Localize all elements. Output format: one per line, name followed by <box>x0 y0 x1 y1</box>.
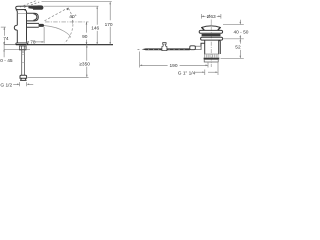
svg-text:52: 52 <box>235 45 241 51</box>
base plate <box>16 43 28 45</box>
handle raised position (dashed, two edges) <box>20 1 37 8</box>
shank thread ticks <box>21 51 25 62</box>
drain centerline (dash-dot vertical) <box>210 20 212 68</box>
nut neck <box>195 46 201 49</box>
rod clamp fitting <box>162 43 167 51</box>
spray regulator knob on rear <box>14 25 17 30</box>
dimension >=350 (hose length) <box>28 76 89 78</box>
svg-text:74: 74 <box>3 36 9 42</box>
dimension G 1 1/4 (waste thread) <box>195 63 218 76</box>
dimension 0-45 (deck thickness) <box>3 42 5 57</box>
svg-text:78: 78 <box>30 40 36 46</box>
spout tube <box>27 13 39 21</box>
waste body <box>205 40 221 54</box>
seal ring (dark band) <box>202 34 221 36</box>
flange (pill) <box>199 30 222 33</box>
dimension 52 (outlet offset) <box>221 57 244 59</box>
svg-text:190: 190 <box>170 63 178 69</box>
outlet bottom (dark band) <box>204 58 220 60</box>
jet upper ray (dashed) <box>45 8 68 21</box>
hose end connector nut <box>20 75 27 80</box>
svg-text:Ø63: Ø63 <box>207 14 216 20</box>
arc arrowhead top <box>66 7 68 10</box>
svg-text:G 1/2: G 1/2 <box>0 82 12 87</box>
column cap seam <box>17 12 26 14</box>
pop-up plug dome <box>201 26 221 28</box>
extension line for 170 (raised handle top) <box>42 1 112 3</box>
dimension 74 (knob height) <box>1 27 6 44</box>
dimension 190 (rod length) <box>140 52 208 68</box>
svg-text:≥350: ≥350 <box>79 62 90 68</box>
dimension 78 (spout projection) <box>26 27 44 49</box>
svg-text:170: 170 <box>105 22 113 28</box>
dimension 40-50 (deck thickness at waste) <box>223 23 244 25</box>
svg-text:40 - 50: 40 - 50 <box>234 30 249 36</box>
aerator nozzle tip (dark) <box>39 24 45 27</box>
svg-text:40°: 40° <box>69 14 76 20</box>
locknut (pill) <box>201 37 223 40</box>
mounting nut below deck <box>19 46 26 50</box>
handle lever bar (closed position) <box>16 6 43 10</box>
outlet end box <box>204 59 218 62</box>
dimension G 1/2 (supply thread) <box>13 82 33 86</box>
svg-text:146: 146 <box>91 26 99 32</box>
dimension 90 (spout height) <box>86 22 88 45</box>
water stream parabola <box>44 26 71 38</box>
deck surface line <box>4 44 16 46</box>
outlet tailpiece with thread <box>204 54 218 58</box>
water jet arc (dashed, 40 deg swing) <box>65 8 73 43</box>
svg-text:90: 90 <box>82 34 88 40</box>
tick cross on arc at centerline <box>72 20 74 24</box>
body column <box>16 10 27 43</box>
dimension 170 (overall height) <box>109 2 111 45</box>
deck underside line <box>4 48 30 50</box>
handle dark tip <box>28 5 43 9</box>
lever rod (dark with light dashes) <box>142 48 190 50</box>
jet centerline (dash-dot) <box>45 21 89 23</box>
spray nozzle tube <box>27 23 40 27</box>
side port boss <box>201 43 205 50</box>
ball joint nut <box>190 46 196 50</box>
threaded shank / supply hoses <box>22 50 25 75</box>
svg-text:G 1" 1/4: G 1" 1/4 <box>178 70 196 76</box>
rod centerline dash <box>138 48 140 50</box>
extension line for 146 (handle top) <box>44 5 99 7</box>
svg-text:0 - 45: 0 - 45 <box>0 58 13 64</box>
dimension 146 (height closed handle) <box>96 6 98 44</box>
dimension diameter 63 <box>201 14 221 19</box>
